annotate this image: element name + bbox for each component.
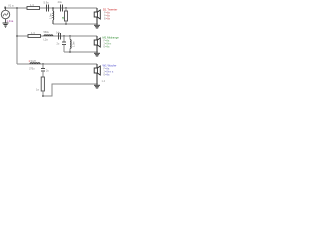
wire mid feed xyxy=(17,35,97,37)
node (97,84) xyxy=(96,83,98,85)
node (17,36) xyxy=(16,35,18,37)
capacitor C1 (tweeter series) xyxy=(44,0,50,11)
node (66,8) xyxy=(65,7,67,9)
svg-text:1 5mH: 1 5mH xyxy=(29,60,37,63)
wire woofer return rail xyxy=(42,84,97,96)
ground (tweeter) xyxy=(94,25,100,28)
node (17,8) xyxy=(16,7,18,9)
inductor L4 (woofer series) xyxy=(29,60,41,71)
svg-text:E=8a: E=8a xyxy=(104,46,111,49)
tweeter speaker D1 xyxy=(94,8,100,24)
svg-text:L2a: L2a xyxy=(44,38,49,41)
svg-text:44u: 44u xyxy=(58,0,63,4)
svg-text:375u: 375u xyxy=(29,68,35,71)
wire tweeter return rail xyxy=(53,23,97,25)
node (53,8) xyxy=(52,7,54,9)
node (97,52) xyxy=(96,51,98,53)
node (64,36) xyxy=(63,35,65,37)
inductor L1 shunt (tweeter) xyxy=(50,8,54,24)
capacitor C4 shunt (mid) xyxy=(57,36,67,52)
node (97,24) xyxy=(96,23,98,25)
wire midrange return rail xyxy=(64,51,97,53)
source V1 xyxy=(1,8,9,23)
inductor L3 shunt (mid) xyxy=(70,36,76,52)
wire top feed xyxy=(6,7,98,9)
svg-text:1.5m: 1.5m xyxy=(73,41,76,47)
inductor L2 (mid series) xyxy=(44,31,53,41)
svg-text:E=8a: E=8a xyxy=(104,17,111,20)
woofer speaker W1 xyxy=(94,64,100,84)
node (43,64) xyxy=(42,63,44,65)
resistor R1 (tweeter series) xyxy=(27,3,40,10)
svg-text:560u: 560u xyxy=(44,31,50,34)
svg-text:5.9u: 5.9u xyxy=(44,0,50,4)
resistor R4 shunt (woofer) xyxy=(36,77,44,96)
capacitor C5 shunt (woofer) xyxy=(41,64,50,77)
svg-text:1.4: 1.4 xyxy=(102,80,106,83)
svg-text:14u: 14u xyxy=(56,31,61,34)
node (70,52) xyxy=(69,51,71,53)
svg-text:1.3: 1.3 xyxy=(31,31,35,35)
node (42,96) xyxy=(42,95,44,97)
ground (woofer) xyxy=(94,85,100,88)
svg-text:1.3: 1.3 xyxy=(30,3,34,7)
node (70,36) xyxy=(69,35,71,37)
ground (source) xyxy=(3,23,9,27)
svg-text:V1 a: V1 a xyxy=(8,3,14,7)
svg-text:1.41a: 1.41a xyxy=(7,19,14,23)
node (66,24) xyxy=(65,23,67,25)
wire bottom feed xyxy=(17,63,97,65)
ground (midrange) xyxy=(94,53,100,56)
resistor R2 shunt (tweeter, green label) xyxy=(62,8,68,24)
svg-text:E=8a: E=8a xyxy=(104,74,111,77)
source top pin tick xyxy=(4,7,6,9)
midrange speaker M1 xyxy=(94,36,100,52)
capacitor C3 (mid series) xyxy=(56,31,61,39)
resistor R3 (mid series) xyxy=(28,31,41,38)
wire left bus xyxy=(16,8,18,64)
svg-text:1.5m: 1.5m xyxy=(50,13,53,19)
capacitor C2 (tweeter series) xyxy=(58,0,63,11)
